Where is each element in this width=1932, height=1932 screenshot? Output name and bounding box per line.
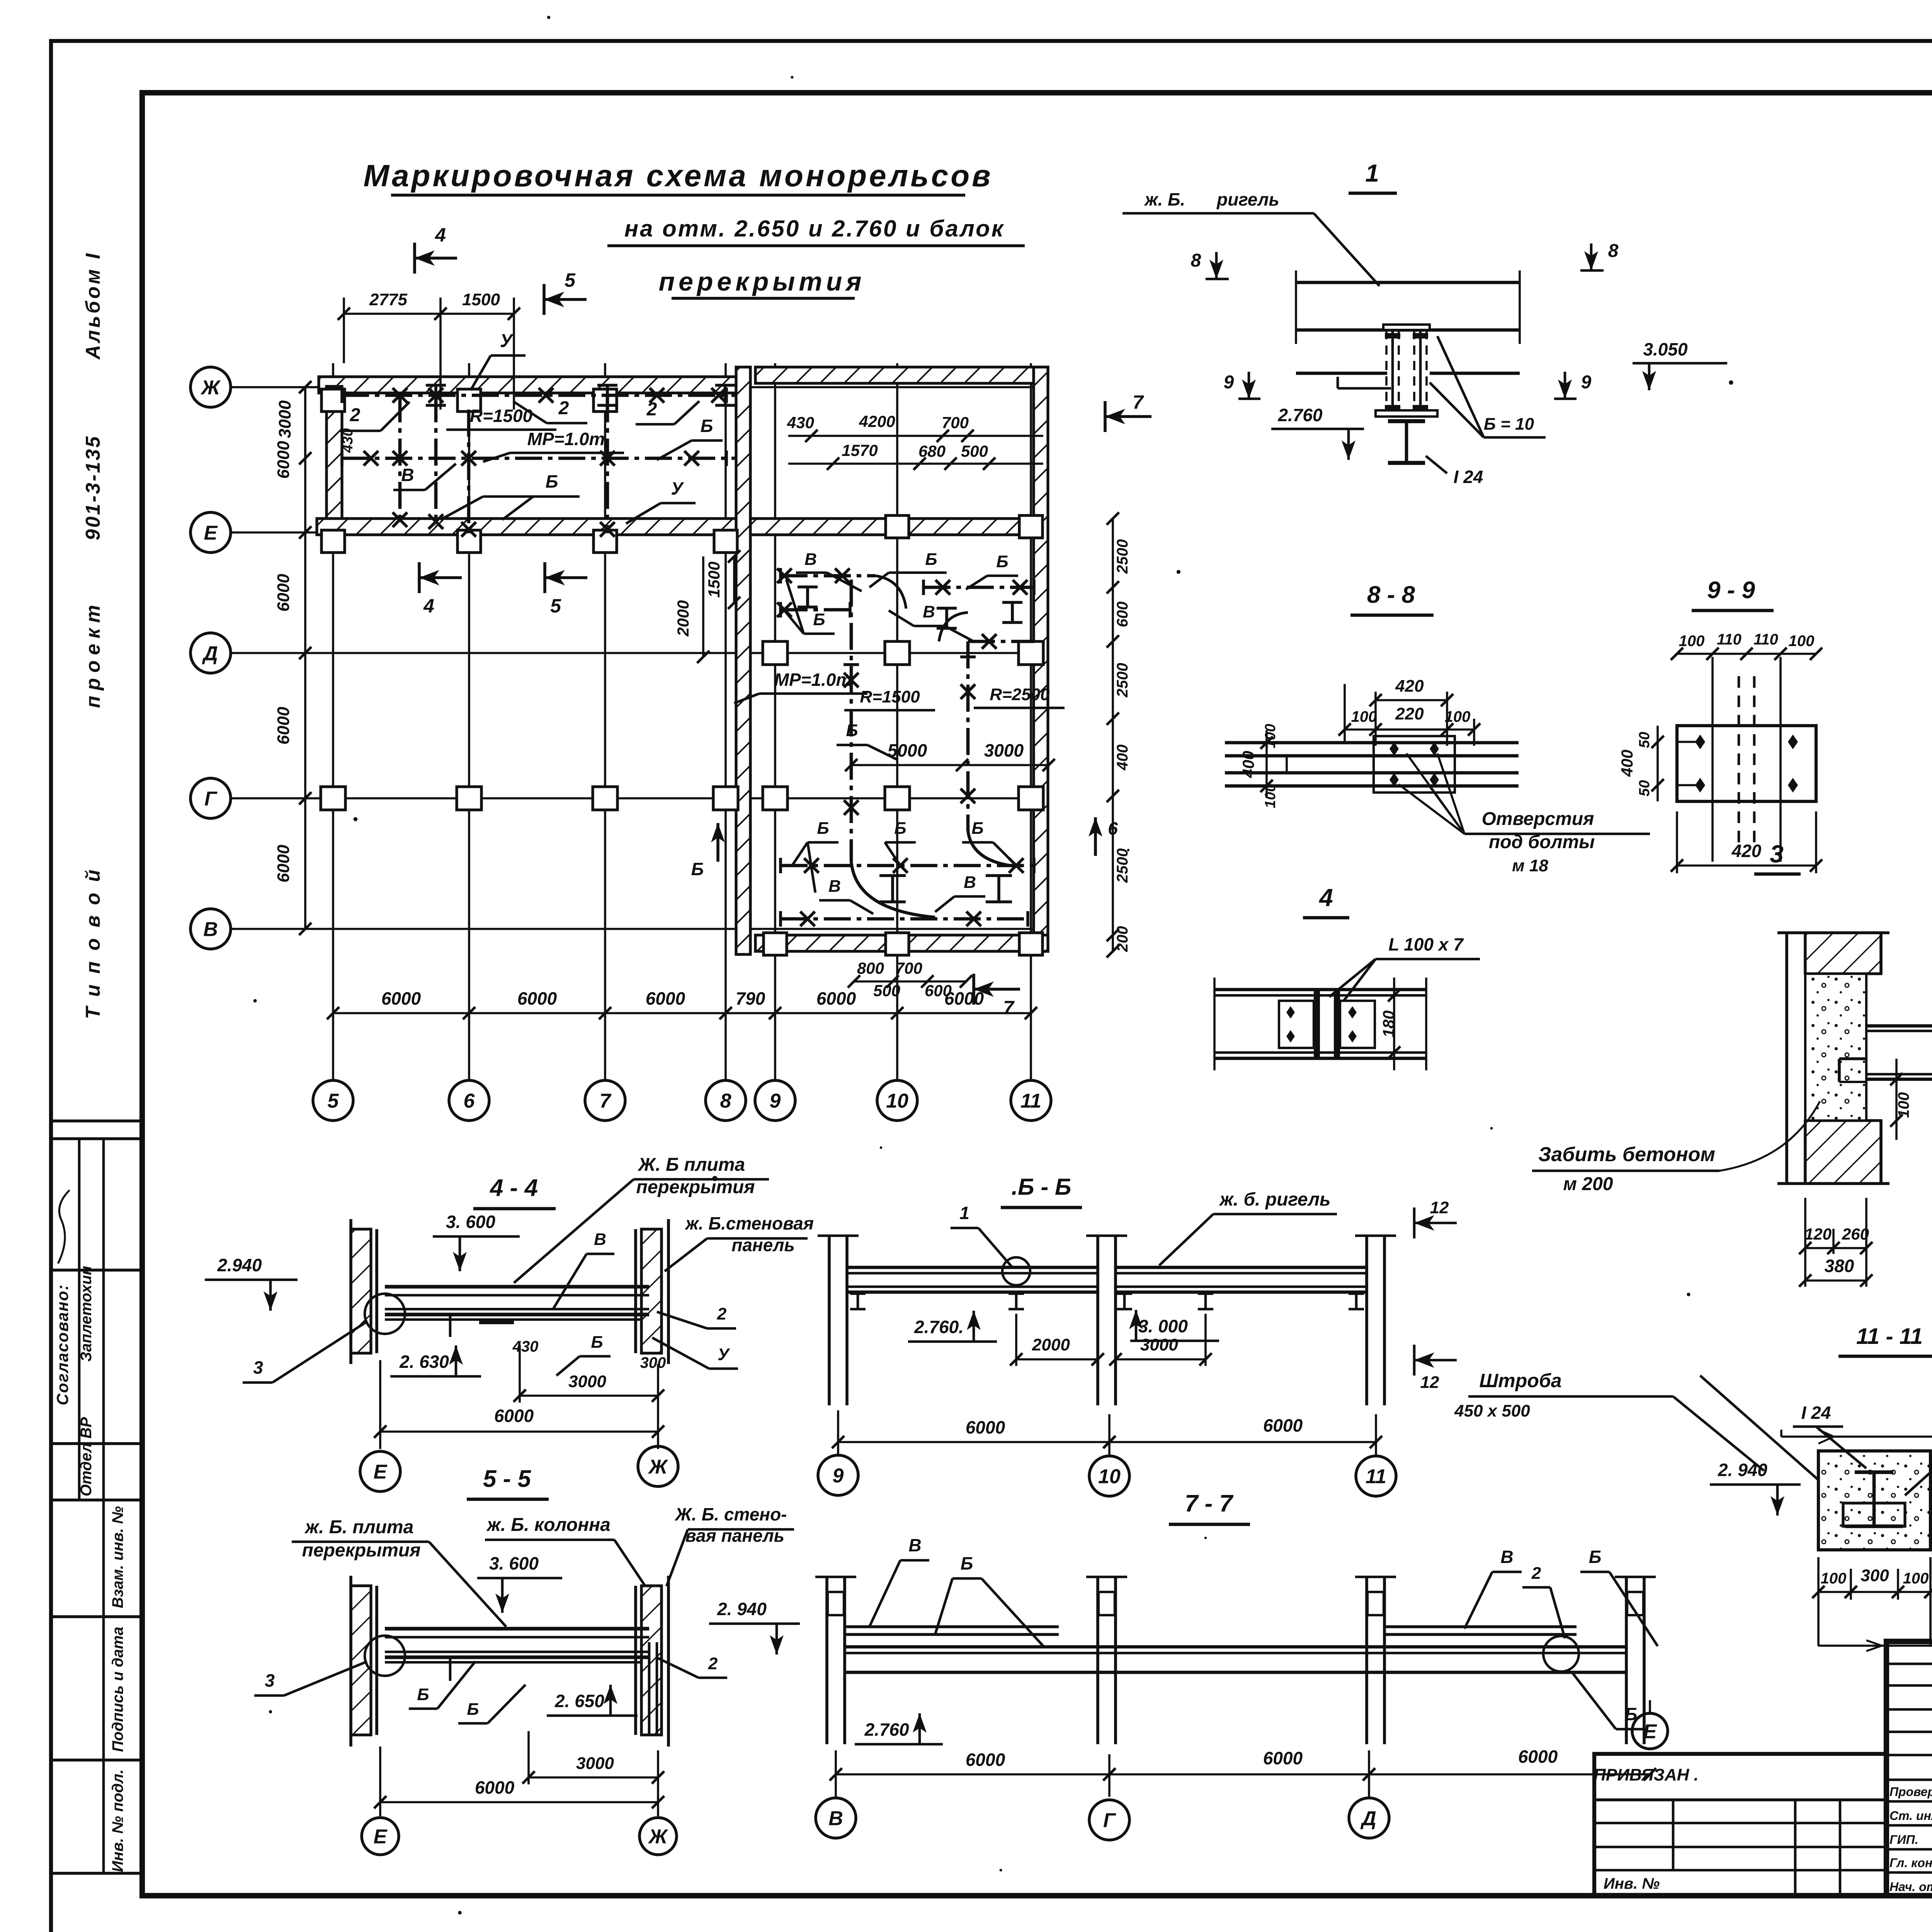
- section 5-5 left wall: [351, 1576, 377, 1747]
- dims right side of right block: [1107, 512, 1131, 957]
- monorail verticals left block: [393, 395, 615, 537]
- svg-text:5 - 5: 5 - 5: [483, 1466, 532, 1492]
- svg-text:Б: Б: [961, 1553, 973, 1573]
- svg-text:ж. Б. плита: ж. Б. плита: [304, 1517, 414, 1537]
- svg-text:10: 10: [886, 1090, 908, 1112]
- section 11-11 title: [1838, 1324, 1932, 1356]
- svg-text:700: 700: [942, 413, 969, 432]
- svg-text:Отдел ВР: Отдел ВР: [78, 1417, 95, 1496]
- svg-text:Ст. инж.: Ст. инж.: [1889, 1809, 1932, 1823]
- detail 1 label zh.b. rigel: [1122, 189, 1379, 286]
- svg-text:6000: 6000: [381, 988, 421, 1009]
- svg-text:2.940: 2.940: [217, 1255, 262, 1275]
- section 5-5 label stenovaya: [667, 1504, 794, 1586]
- svg-text:м 200: м 200: [1563, 1174, 1613, 1194]
- svg-text:8: 8: [1608, 241, 1619, 261]
- svg-text:9: 9: [1581, 372, 1592, 393]
- svg-text:6: 6: [464, 1090, 475, 1112]
- svg-text:11: 11: [1366, 1466, 1386, 1488]
- svg-text:2.760: 2.760: [1277, 405, 1323, 425]
- svg-text:перекрытия: перекрытия: [659, 267, 866, 296]
- section 8-8 label otverstiya: [1399, 753, 1650, 875]
- section 5-5 dims bottom: [374, 1731, 664, 1808]
- svg-text:500: 500: [873, 981, 900, 1000]
- svg-text:У: У: [718, 1345, 730, 1364]
- detail 3 monorail beam: [1839, 1026, 1932, 1082]
- svg-text:Инв. №: Инв. №: [1604, 1875, 1660, 1892]
- wall row E right block: [750, 519, 1034, 535]
- section 11-11 label L150: [1905, 1430, 1932, 1495]
- signature Zapletokhin: [58, 1190, 95, 1362]
- section 4-4 label 3: [243, 1321, 367, 1383]
- svg-text:Б: Б: [691, 859, 704, 879]
- section 6-6 elevation 2.760: [908, 1311, 997, 1342]
- svg-text:6000: 6000: [966, 1750, 1005, 1770]
- section 5-5 labels B: [409, 1662, 526, 1723]
- svg-text:МР=1.0т: МР=1.0т: [774, 670, 852, 690]
- svg-text:Б: Б: [996, 552, 1008, 571]
- section 5-5 slab: [365, 1629, 649, 1681]
- svg-text:В: В: [203, 918, 218, 941]
- section 4-4 label plita: [514, 1155, 769, 1283]
- svg-text:В: В: [401, 465, 414, 485]
- svg-text:Б: Б: [894, 819, 906, 838]
- section 6-6 columns: [818, 1236, 1396, 1405]
- monorail rail second left block: [342, 451, 736, 466]
- svg-text:МР=1.0т: МР=1.0т: [527, 429, 605, 449]
- svg-text:110: 110: [1753, 631, 1778, 648]
- svg-text:Б: Б: [813, 610, 825, 629]
- wall middle vertical axis 8-9: [736, 367, 750, 954]
- section 6-6 label 1: [951, 1203, 1030, 1285]
- dims top of right block: [787, 412, 1043, 470]
- section 6-6 beams: [847, 1267, 1367, 1309]
- label R=2500 right block: [974, 685, 1065, 708]
- svg-text:2. 650: 2. 650: [554, 1691, 604, 1711]
- svg-text:4: 4: [423, 595, 434, 617]
- section 4-4 label stenovaya: [665, 1213, 814, 1271]
- dims 5000 3000 right block: [845, 740, 1055, 771]
- svg-text:3. 000: 3. 000: [1138, 1316, 1188, 1336]
- svg-text:Б: Б: [591, 1333, 603, 1352]
- svg-text:2000: 2000: [674, 600, 692, 636]
- svg-text:Е: Е: [204, 522, 218, 544]
- detail 4 title: [1303, 884, 1349, 918]
- columns row G: [321, 787, 1043, 810]
- svg-text:7: 7: [1133, 391, 1144, 413]
- title block outline: [1886, 1641, 1932, 1896]
- svg-text:Нач. отд: Нач. отд: [1889, 1880, 1932, 1894]
- svg-text:Гл. констр.: Гл. констр.: [1889, 1856, 1932, 1870]
- left margin stamp column: [53, 1121, 142, 1873]
- svg-text:9 - 9: 9 - 9: [1707, 577, 1755, 604]
- svg-text:5000: 5000: [888, 740, 927, 760]
- monorail verticals right block: [844, 580, 976, 862]
- svg-text:Б: Б: [1589, 1547, 1602, 1567]
- svg-text:100: 100: [1821, 1570, 1847, 1587]
- svg-text:ж. Б.: ж. Б.: [1144, 189, 1185, 209]
- svg-text:430: 430: [340, 428, 356, 453]
- svg-text:100: 100: [1679, 633, 1705, 650]
- wall top of right block: [755, 367, 1048, 383]
- detail 3 wall: [1777, 933, 1889, 1184]
- svg-text:7: 7: [1003, 997, 1015, 1019]
- section 5-5 right wall: [636, 1576, 668, 1747]
- svg-text:R=2500: R=2500: [990, 685, 1050, 704]
- svg-text:110: 110: [1717, 631, 1742, 648]
- svg-text:6000: 6000: [517, 988, 557, 1009]
- vertical label proekt: [82, 600, 104, 708]
- detail 3 label zabit betonom: [1532, 1101, 1820, 1194]
- svg-text:1500: 1500: [462, 290, 500, 309]
- section mark 4 top: [415, 224, 457, 274]
- section mark 7 bottom: [974, 974, 1020, 1019]
- svg-text:Ж: Ж: [648, 1826, 668, 1848]
- axis circle 6: [449, 1080, 489, 1121]
- svg-text:680: 680: [918, 442, 946, 460]
- svg-text:100: 100: [1895, 1092, 1912, 1118]
- svg-text:Взам. инв. №: Взам. инв. №: [109, 1506, 126, 1608]
- svg-text:R=1500: R=1500: [860, 687, 920, 706]
- labels right block lower: [792, 819, 1016, 893]
- section 8-8 plates: [1225, 736, 1519, 793]
- columns on top wall: [321, 389, 617, 412]
- svg-text:В: В: [828, 877, 841, 896]
- svg-text:Б: Б: [417, 1685, 429, 1704]
- svg-text:Б: Б: [971, 819, 983, 838]
- svg-text:Подпись и дата: Подпись и дата: [109, 1627, 126, 1752]
- section 4-4 elevation 2.940: [205, 1255, 298, 1311]
- svg-text:7: 7: [600, 1090, 612, 1112]
- svg-text:700: 700: [895, 959, 922, 977]
- detail 1 section mark 8 left: [1191, 250, 1229, 279]
- svg-text:4: 4: [435, 224, 446, 246]
- svg-text:1570: 1570: [842, 441, 878, 459]
- section 7-7 title: [1169, 1490, 1250, 1524]
- svg-text:8: 8: [1191, 250, 1201, 271]
- svg-text:450 х 500: 450 х 500: [1454, 1401, 1530, 1420]
- svg-text:ж. б. ригель: ж. б. ригель: [1218, 1189, 1330, 1210]
- dim 430 left: [340, 428, 356, 453]
- svg-text:5: 5: [550, 595, 561, 617]
- vertical label Podpis i data: [109, 1627, 126, 1752]
- detail 3 dims bottom: [1799, 1198, 1872, 1287]
- section 5-5 elevation 2.940 right: [709, 1599, 800, 1655]
- svg-text:6000: 6000: [966, 1417, 1005, 1437]
- svg-text:Б: Б: [701, 416, 713, 436]
- svg-text:м 18: м 18: [1512, 856, 1548, 875]
- section 6-6 axis circles: [818, 1410, 1396, 1496]
- svg-text:3. 600: 3. 600: [446, 1212, 495, 1232]
- section 5-5 dim 3600: [477, 1553, 562, 1613]
- svg-text:Д: Д: [1360, 1808, 1376, 1830]
- svg-text:Согласовано:: Согласовано:: [53, 1284, 71, 1405]
- svg-text:5: 5: [565, 269, 576, 291]
- svg-text:Инв. № подл.: Инв. № подл.: [109, 1769, 126, 1872]
- svg-text:6000: 6000: [816, 988, 856, 1009]
- label U lower left block: [626, 478, 696, 524]
- svg-text:400: 400: [1239, 751, 1257, 778]
- axis circle 7: [585, 1080, 625, 1121]
- axis circle E: [190, 512, 231, 553]
- label MR=1.0t left block: [483, 429, 624, 462]
- svg-text:2. 630: 2. 630: [399, 1352, 449, 1372]
- label 2 mid: [514, 398, 587, 423]
- section 5-5 label 2: [657, 1654, 727, 1678]
- columns row D: [763, 641, 1043, 665]
- svg-text:8: 8: [720, 1090, 731, 1112]
- svg-text:50: 50: [1636, 732, 1653, 748]
- svg-text:11 - 11: 11 - 11: [1856, 1324, 1923, 1349]
- svg-text:6000: 6000: [274, 845, 293, 883]
- detail 4 plates with bolts: [1279, 1001, 1375, 1048]
- svg-text:В: В: [908, 1535, 921, 1555]
- svg-text:В: В: [804, 550, 817, 569]
- dim 3000 left: [276, 381, 311, 464]
- section 5-5 label plita: [292, 1517, 506, 1627]
- detail 1 section mark 8 right: [1580, 241, 1619, 270]
- section 4-4 right wall: [636, 1219, 668, 1364]
- section 5-5 label 3: [254, 1662, 367, 1696]
- label MR=1.0t right block: [734, 670, 867, 703]
- svg-text:2: 2: [708, 1654, 718, 1673]
- svg-text:2.760: 2.760: [864, 1719, 909, 1740]
- axis circle 8: [706, 1080, 746, 1121]
- svg-text:500: 500: [961, 442, 988, 460]
- detail 1 elevation 3.050: [1633, 339, 1727, 390]
- section mark 4 inside: [419, 562, 462, 617]
- detail 1 bolted connection: [1376, 325, 1437, 417]
- section 4-4 slab: [365, 1287, 649, 1337]
- svg-text:ГИП.: ГИП.: [1889, 1833, 1918, 1847]
- plan grid vertical axes: [333, 363, 1031, 1080]
- svg-text:6000: 6000: [475, 1777, 515, 1798]
- main title line 3: [659, 267, 866, 298]
- svg-text:3: 3: [265, 1670, 275, 1690]
- main title line 1: [364, 158, 993, 195]
- axis circle 11: [1011, 1080, 1051, 1121]
- detail 1 title: [1349, 159, 1397, 193]
- svg-text:У: У: [671, 478, 684, 498]
- svg-text:3000: 3000: [576, 1754, 614, 1773]
- svg-text:ж. Б.стеновая: ж. Б.стеновая: [684, 1213, 814, 1233]
- svg-text:400: 400: [1114, 745, 1131, 771]
- section 7-7 columns: [815, 1577, 1656, 1744]
- svg-text:ригель: ригель: [1216, 189, 1279, 209]
- svg-text:7 - 7: 7 - 7: [1185, 1490, 1234, 1517]
- svg-text:Б: Б: [467, 1700, 479, 1719]
- svg-text:3: 3: [1770, 840, 1784, 868]
- section 5-5 axis circles: [362, 1747, 677, 1855]
- svg-text:2: 2: [350, 405, 361, 425]
- section 9-9 title: [1692, 577, 1774, 611]
- svg-text:6000: 6000: [944, 988, 984, 1009]
- svg-text:12: 12: [1430, 1198, 1449, 1217]
- section 7-7 labels v b left: [869, 1535, 1043, 1646]
- svg-text:Заплетохин: Заплетохин: [78, 1266, 95, 1362]
- svg-text:3000: 3000: [984, 740, 1024, 760]
- svg-text:901-3-135: 901-3-135: [82, 435, 104, 540]
- svg-text:2500: 2500: [1114, 663, 1131, 698]
- svg-text:Проверил: Проверил: [1889, 1785, 1932, 1799]
- svg-text:6000: 6000: [274, 441, 293, 479]
- monorail rail top left block: [342, 385, 736, 405]
- svg-text:R=1500: R=1500: [470, 406, 533, 426]
- svg-text:на отм. 2.650 и 2.760 и балок: на отм. 2.650 и 2.760 и балок: [624, 216, 1005, 241]
- axis circle V: [190, 909, 231, 949]
- svg-text:3: 3: [253, 1357, 263, 1378]
- svg-text:В: В: [594, 1230, 606, 1249]
- section 5-5 label kolonna: [485, 1515, 649, 1592]
- label shtroba: [1454, 1370, 1764, 1471]
- svg-text:600: 600: [1114, 602, 1131, 628]
- svg-text:100: 100: [1351, 708, 1377, 725]
- svg-text:1: 1: [959, 1203, 969, 1223]
- svg-text:.Б - Б: .Б - Б: [1012, 1174, 1071, 1200]
- section 7-7 elevation 2.760: [855, 1713, 943, 1744]
- svg-text:Альбом I: Альбом I: [82, 251, 104, 360]
- columns row V: [764, 933, 1043, 955]
- svg-text:Г: Г: [1103, 1810, 1116, 1832]
- svg-text:6000: 6000: [646, 988, 685, 1009]
- svg-text:430: 430: [787, 413, 814, 432]
- svg-text:Забить бетоном: Забить бетоном: [1538, 1143, 1715, 1166]
- svg-text:2775: 2775: [369, 290, 407, 309]
- main title line 2: [607, 216, 1025, 246]
- section 5-5 elevation 2.650: [547, 1685, 638, 1716]
- section 6-6 section marks 12: [1414, 1198, 1457, 1392]
- svg-text:2: 2: [558, 398, 569, 418]
- svg-text:100: 100: [1903, 1570, 1929, 1587]
- label 2 right: [636, 399, 699, 424]
- axis circle 5: [313, 1080, 353, 1121]
- section 7-7 dims 6000: [830, 1747, 1656, 1781]
- monorail rails right block lower: [781, 831, 1034, 927]
- section 4-4 dims 430 b 300: [512, 1333, 666, 1376]
- axis circle D: [190, 633, 231, 673]
- vertical label 901-3-135: [82, 435, 104, 540]
- svg-text:6000: 6000: [1518, 1747, 1558, 1767]
- wall row E: [317, 519, 750, 535]
- svg-text:100: 100: [1445, 708, 1471, 725]
- dims 6000 left side: [274, 381, 311, 935]
- columns on wall E: [321, 515, 1043, 553]
- vertical label Album I: [82, 251, 104, 360]
- svg-text:12: 12: [1420, 1373, 1439, 1392]
- detail 4 beams: [1214, 978, 1426, 1070]
- section 9-9 dims top: [1671, 631, 1822, 660]
- svg-text:Д: Д: [202, 643, 218, 665]
- axis circle G: [190, 778, 231, 818]
- svg-text:100: 100: [1789, 633, 1815, 650]
- svg-text:L 100 х 7: L 100 х 7: [1388, 934, 1464, 954]
- svg-text:9: 9: [1224, 372, 1234, 393]
- vertical label Vzam inv no: [109, 1506, 126, 1608]
- wall top of left block: [319, 377, 740, 393]
- svg-text:800: 800: [857, 959, 884, 977]
- svg-text:11: 11: [1020, 1090, 1041, 1112]
- section mark 5 inside: [545, 562, 587, 617]
- label B mid right block: [837, 721, 896, 759]
- svg-text:Е: Е: [374, 1461, 388, 1483]
- svg-text:Ж: Ж: [648, 1456, 668, 1478]
- svg-text:10: 10: [1098, 1466, 1121, 1488]
- svg-text:Маркировочная схема монорель: Маркировочная схема монорельсов: [364, 158, 993, 193]
- svg-text:3.050: 3.050: [1643, 339, 1688, 359]
- svg-text:перекрытия: перекрытия: [302, 1540, 421, 1561]
- svg-text:3000: 3000: [568, 1372, 606, 1391]
- monorail rails right block upper: [777, 568, 1034, 649]
- section 7-7 labels right: [1464, 1547, 1658, 1646]
- svg-text:2.760.: 2.760.: [914, 1317, 964, 1337]
- section 9-9 plate: [1677, 657, 1816, 862]
- svg-text:120: 120: [1804, 1225, 1832, 1243]
- privyazan block: [1594, 1754, 1886, 1896]
- vertical label Otdel VR: [78, 1417, 95, 1496]
- svg-text:Б: Б: [546, 471, 558, 492]
- section 6-6 elevation 3.000: [1129, 1310, 1219, 1341]
- bottom dimension chain: [327, 988, 1037, 1019]
- svg-text:50: 50: [1636, 780, 1653, 796]
- svg-text:3000: 3000: [1140, 1335, 1178, 1354]
- dims 2775 1500 top: [338, 290, 520, 410]
- svg-text:Б = 10: Б = 10: [1484, 415, 1534, 434]
- axis circle Zh: [190, 367, 231, 407]
- svg-text:400: 400: [1618, 750, 1636, 777]
- svg-text:В: В: [1500, 1547, 1513, 1567]
- section 6-6 dims 2000 3000: [1010, 1314, 1212, 1366]
- labels V lower right block: [819, 873, 985, 914]
- detail 1 monorail I24: [1388, 421, 1425, 463]
- wall right of right block: [1034, 367, 1048, 951]
- svg-text:3000: 3000: [276, 400, 294, 438]
- detail 1 label I24: [1426, 456, 1483, 487]
- svg-text:420: 420: [1731, 841, 1762, 861]
- label V left block: [393, 464, 456, 490]
- svg-text:Б: Б: [846, 721, 858, 740]
- svg-text:2500: 2500: [1114, 849, 1131, 883]
- section 11-11 concrete block: [1781, 1430, 1932, 1550]
- detail 3 title: [1754, 840, 1801, 874]
- svg-text:380: 380: [1825, 1256, 1854, 1276]
- svg-text:430: 430: [512, 1338, 539, 1355]
- label B right of left block: [657, 416, 723, 460]
- section 4-4 elevation 2.630: [390, 1345, 481, 1376]
- section 11-11 leader from title area: [1700, 1376, 1818, 1480]
- svg-text:проект: проект: [82, 600, 104, 708]
- title block signatures text: [1889, 1783, 1932, 1932]
- section 6-6 title: [1001, 1174, 1082, 1207]
- svg-text:2: 2: [1531, 1564, 1541, 1583]
- svg-text:Ж: Ж: [200, 377, 221, 399]
- detail 4 label L100x7: [1329, 934, 1480, 1005]
- svg-text:9: 9: [833, 1465, 844, 1487]
- svg-text:Штроба: Штроба: [1479, 1370, 1561, 1391]
- detail 1 label B=10: [1430, 336, 1546, 437]
- labels right block B cluster: [784, 580, 974, 641]
- svg-text:Б: Б: [925, 550, 937, 569]
- vertical label Soglasovano: [53, 1284, 71, 1405]
- section 7-7 axis circles: [816, 1700, 1668, 1840]
- label R=1500 left block: [446, 406, 556, 430]
- svg-text:2500: 2500: [1114, 539, 1131, 574]
- section 6-6 label rigel: [1159, 1189, 1337, 1265]
- svg-text:1500: 1500: [705, 561, 723, 597]
- section mark 7 top right: [1105, 391, 1151, 432]
- label B center left block: [440, 471, 580, 520]
- dims 1500 2000 mid: [674, 550, 740, 663]
- svg-text:260: 260: [1842, 1225, 1869, 1243]
